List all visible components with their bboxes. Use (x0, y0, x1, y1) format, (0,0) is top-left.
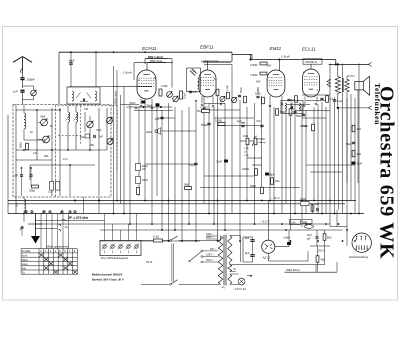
output transformer secondary (345, 76, 355, 183)
label MW 1.9mA (145, 55, 168, 59)
bus avc (100, 229, 343, 231)
node dial junction (250, 59, 337, 65)
trimmer C1 (38, 119, 48, 126)
svg-text:Kurz: Kurz (22, 255, 28, 258)
resistor 27k (300, 198, 309, 206)
svg-text:Meßinstrument 500Ω/V: Meßinstrument 500Ω/V (92, 273, 123, 277)
svg-text:1kΩ: 1kΩ (80, 135, 85, 139)
wire zf line (36, 219, 105, 221)
svg-text:40V ≈: 40V ≈ (210, 248, 217, 251)
oscillator coils (66, 106, 79, 122)
label MW 3mA (148, 59, 166, 63)
label 4V a (233, 268, 236, 271)
resistor right low (352, 150, 361, 157)
resistor 39k ohm (29, 185, 39, 192)
svg-text:1,5A: 1,5A (244, 154, 249, 157)
IF transformer 3 (281, 101, 303, 114)
svg-text:20kΩ: 20kΩ (146, 131, 152, 134)
wire screen bus (145, 59, 172, 88)
loudspeaker (355, 76, 370, 183)
tube ECL11 (303, 64, 320, 104)
capacitor 5nF EM (287, 98, 295, 102)
svg-text:220V ≈: 220V ≈ (206, 236, 215, 239)
svg-text:40pF: 40pF (69, 59, 75, 63)
svg-text:ECH11: ECH11 (142, 46, 157, 51)
resistor 15 ohm (271, 178, 280, 185)
capacitor tuner 2 (29, 168, 32, 186)
IF transformer 1 (67, 87, 100, 104)
wire 1a stub (36, 228, 58, 230)
capacitor 1nF tuner (14, 168, 24, 196)
svg-text:45 W: 45 W (146, 260, 153, 264)
variable capacitor gang 1 (87, 116, 94, 133)
capacitor 10nF (307, 234, 319, 241)
svg-text:Orchestra 659 WK: Orchestra 659 WK (376, 86, 398, 259)
svg-text:200pF: 200pF (26, 77, 35, 81)
svg-text:1nF: 1nF (13, 90, 18, 94)
svg-text:1kΩ: 1kΩ (303, 221, 308, 224)
svg-text:6μF: 6μF (155, 118, 160, 121)
capacitor 100uF (283, 236, 291, 245)
svg-text:65μF: 65μF (269, 174, 275, 177)
trimmer osc 1 (107, 117, 113, 123)
resistor 0.2M mid (215, 120, 225, 126)
label 45W (146, 260, 153, 264)
svg-text:+50μF: +50μF (283, 236, 291, 240)
svg-text:500: 500 (15, 202, 19, 207)
brand Telefunken (373, 83, 382, 125)
svg-text:2kΩ: 2kΩ (357, 128, 362, 131)
label 1M EM (255, 91, 261, 95)
UKW connector (100, 241, 141, 261)
resistor 2M ohm (19, 142, 29, 150)
capacitor 1nF input (13, 90, 25, 104)
label 8M 1.5M (300, 124, 314, 131)
pot 0.5M (254, 138, 266, 145)
power transformer secondary HT (228, 236, 232, 265)
svg-text:25kΩ 60mA: 25kΩ 60mA (286, 268, 300, 272)
capacitor 2nF osc (94, 135, 104, 139)
label 202V (317, 249, 325, 253)
svg-text:Zum UKW Einbaugerät: Zum UKW Einbaugerät (100, 256, 128, 260)
trimmer antenna (23, 86, 37, 100)
wire avc drop (95, 52, 97, 87)
svg-text:13,4: 13,4 (63, 158, 68, 161)
wire heater ECH (126, 106, 172, 107)
svg-text:EM11: EM11 (270, 46, 282, 51)
svg-text:Sockelschaltung: Sockelschaltung (349, 255, 368, 259)
tube label ECL11 (302, 47, 316, 52)
wire ECH plate link (134, 63, 173, 80)
svg-text:20V: 20V (267, 63, 272, 67)
resistor below 18k (137, 188, 140, 195)
resistor 1.5M ohm (250, 72, 267, 77)
power transformer primary (218, 236, 223, 284)
svg-text:15Ω: 15Ω (275, 180, 280, 183)
bus heater (8, 213, 364, 215)
label measurement (92, 273, 125, 282)
svg-text:1.9mA: 1.9mA (123, 71, 132, 75)
svg-text:1.3mA: 1.3mA (281, 54, 290, 58)
primary taps (201, 236, 218, 263)
capacitor 50nF ECH (130, 101, 146, 105)
border frame (3, 27, 398, 301)
svg-text:– 11 V: – 11 V (271, 196, 279, 200)
svg-text:24V/36mA: 24V/36mA (305, 60, 317, 64)
resistor zig right (327, 79, 331, 87)
label 50nF right (296, 114, 305, 118)
capacitor 50uF right (346, 142, 355, 146)
svg-text:2,5A: 2,5A (244, 147, 249, 150)
resistor 1k ohm osc (80, 134, 90, 139)
capacitor 0.1 right (333, 100, 343, 103)
capacitor 40pF antenna (69, 52, 75, 87)
resistor 18k (136, 177, 148, 184)
svg-text:0,1μF: 0,1μF (337, 100, 344, 103)
svg-text:50Ω: 50Ω (327, 237, 332, 240)
rectifier AZ11 (262, 201, 275, 260)
horizontal wires midfield (114, 65, 356, 188)
resistor EM grid (295, 96, 298, 103)
IF transformer 2 (186, 68, 200, 92)
wire EBF11 label box (232, 54, 252, 59)
svg-text:39kΩ: 39kΩ (29, 189, 35, 193)
tuner section dashed box (13, 105, 111, 198)
resistor 1M pot (243, 135, 257, 146)
svg-text:ECL11: ECL11 (302, 47, 316, 52)
pilot lamp (235, 278, 247, 291)
svg-text:1W: 1W (142, 168, 146, 171)
switch position table (21, 244, 77, 274)
svg-text:125V ≈: 125V ≈ (206, 254, 215, 257)
capacitor 50pF ECH (147, 103, 160, 107)
capacitor 5nF mid (257, 120, 264, 127)
capacitor 65uF (265, 173, 275, 177)
svg-text:1a: 1a (65, 225, 69, 229)
svg-text:1,5MΩ: 1,5MΩ (250, 74, 258, 77)
svg-text:550pF: 550pF (201, 124, 208, 127)
label 250k (285, 262, 338, 272)
label 110V (206, 259, 214, 262)
svg-text:8μF: 8μF (245, 252, 250, 255)
svg-text:0,3A: 0,3A (291, 222, 296, 225)
svg-text:1MΩ: 1MΩ (255, 91, 261, 95)
svg-text:60kΩ: 60kΩ (250, 185, 256, 188)
tube label EM11 (270, 46, 282, 51)
tube label EBF11 (200, 45, 214, 50)
capacitor 50nF low (217, 160, 228, 164)
fuse box (290, 220, 301, 225)
labels cluster EBF (227, 84, 260, 94)
oval elko (305, 225, 314, 229)
bus -5.2V (36, 220, 331, 225)
trimmer C2 (38, 136, 50, 143)
capacitor 2nF mid (189, 90, 197, 94)
label 24V 36mA (303, 59, 322, 64)
resistor 0.1uF a (180, 91, 187, 99)
power transformer heater winding (228, 265, 236, 272)
tube ECH11 (137, 70, 156, 106)
svg-text:Ta.: Ta. (22, 272, 26, 275)
tube socket bottom view (349, 233, 371, 259)
power transformer core (224, 235, 226, 286)
svg-text:70pF: 70pF (96, 129, 102, 132)
capacitor antenna 200pF (20, 73, 35, 88)
label 20V (267, 63, 272, 67)
trimmer osc 2 (107, 138, 113, 144)
tube label ECH11 (142, 46, 157, 51)
svg-text:0,3MΩ: 0,3MΩ (250, 64, 258, 67)
svg-text:Kontakt: Kontakt (22, 250, 31, 253)
svg-text:50nF: 50nF (130, 101, 136, 105)
speaker return corner (330, 210, 347, 227)
svg-text:0,2MΩ: 0,2MΩ (215, 120, 222, 123)
model Orchestra 659 WK (376, 86, 398, 259)
svg-text:2kΩ: 2kΩ (357, 153, 362, 156)
bus bottom (100, 240, 200, 242)
svg-text:Mittel gezeichnet: Mittel gezeichnet (46, 244, 69, 248)
rect wires right (268, 230, 308, 261)
capacitor 8uF a (245, 237, 255, 248)
svg-text:5nF: 5nF (257, 120, 262, 123)
svg-text:1nF: 1nF (33, 152, 38, 155)
coil L3 ground (15, 197, 26, 223)
svg-text:70pF: 70pF (40, 116, 46, 119)
svg-text:27kΩ: 27kΩ (300, 198, 306, 201)
label 01M vertical (291, 101, 294, 109)
svg-text:1nF: 1nF (14, 174, 19, 178)
wire HT bus top (59, 52, 232, 61)
label 240V (206, 233, 215, 236)
svg-text:3MΩ: 3MΩ (184, 184, 189, 187)
svg-text:1MΩ: 1MΩ (243, 135, 248, 138)
svg-text:200: 200 (90, 144, 95, 147)
capacitor 8uF b (245, 248, 255, 262)
resistor 0.3M right (201, 107, 210, 113)
label 650/6.3mA vertical (114, 91, 118, 105)
svg-text:ZF = 473 kHz: ZF = 473 kHz (67, 216, 88, 220)
label 125V (206, 254, 215, 257)
svg-text:30kΩ: 30kΩ (241, 87, 243, 93)
label 1.3mA (281, 54, 290, 58)
trimmer pad ECH a (167, 92, 173, 98)
svg-text:8μF: 8μF (245, 237, 250, 240)
pin numbers EBF11 (200, 77, 217, 81)
svg-text:50pF: 50pF (147, 103, 153, 107)
svg-text:18kΩ: 18kΩ (142, 179, 148, 182)
resistor 3M small (184, 184, 192, 190)
svg-text:5nF: 5nF (315, 203, 320, 206)
tube pin contacts (135, 100, 317, 109)
power transformer lamp winding (228, 274, 239, 284)
svg-text:346: 346 (84, 108, 89, 111)
rect input wires (243, 237, 259, 262)
trimmer pad ECH b (173, 96, 179, 102)
resistor 50 ohm (323, 234, 332, 241)
svg-text:1,5MΩ: 1,5MΩ (301, 126, 308, 128)
svg-text:6,3V 0,3A: 6,3V 0,3A (235, 287, 247, 291)
label 40V (210, 248, 217, 251)
svg-text:4V: 4V (233, 268, 236, 271)
svg-text:0,5MΩ: 0,5MΩ (258, 138, 265, 141)
capacitor 50nF grid (197, 108, 206, 113)
label 46V (256, 80, 261, 84)
resistor right b (311, 203, 320, 211)
label ZF 473kHz (61, 216, 89, 221)
svg-text:0,1Ω: 0,1Ω (154, 235, 160, 239)
coupling hooks 1a (59, 224, 69, 231)
switch contact low (20, 226, 24, 236)
svg-text:0,1μF: 0,1μF (189, 164, 196, 167)
resistor 300 ohm (276, 109, 286, 116)
resistor 2k right (352, 125, 361, 132)
bus -11V (8, 196, 356, 201)
svg-text:m.Ausgl.: m.Ausgl. (258, 141, 267, 144)
svg-text:20: 20 (30, 131, 33, 134)
wire dial lamp feed (329, 62, 372, 66)
svg-text:20: 20 (244, 152, 247, 154)
antenna (13, 57, 32, 74)
svg-text:MW 0,5mA: MW 0,5mA (204, 59, 219, 63)
coil L1 antenna (24, 105, 26, 141)
resistor cluster EBF (216, 89, 264, 104)
resistor 38k 1W (136, 164, 148, 172)
svg-text:46V: 46V (256, 80, 261, 84)
bus second (8, 203, 345, 205)
svg-text:1μF: 1μF (307, 238, 312, 241)
svg-text:Bereich 300 V bzw. 30 V: Bereich 300 V bzw. 30 V (92, 278, 125, 282)
svg-text:50μF: 50μF (357, 163, 363, 166)
wires tuner internal (16, 105, 107, 197)
right cluster wires (310, 204, 330, 272)
resistor block 0.1uF (48, 182, 59, 195)
mains switch pole 2 (141, 280, 221, 285)
svg-text:KW: KW (22, 267, 27, 270)
label 4V b (222, 287, 225, 290)
left bus verticals (8, 115, 100, 214)
label 60kOhm (250, 185, 263, 194)
vertical wires trunk (114, 63, 360, 246)
svg-text:170Ω: 170Ω (161, 84, 168, 88)
label MW 0.5mA (203, 59, 231, 63)
heater arrow (247, 275, 253, 277)
resistor 0.1 ohm mains (141, 235, 170, 243)
speaker sym 20k (146, 128, 161, 135)
resistor 100k (242, 168, 257, 175)
box 1k (302, 220, 312, 224)
tube EM11 (267, 60, 285, 104)
svg-text:202 V: 202 V (317, 249, 325, 253)
resistor det (289, 109, 297, 116)
transformer top leads (230, 236, 243, 263)
capacitor 2uF (237, 120, 245, 127)
wire grid link ECH (69, 86, 114, 88)
tuner small labels (30, 108, 102, 161)
tuner dots (21, 109, 91, 168)
label 1.9mA (123, 71, 132, 75)
svg-text:2nF: 2nF (193, 90, 198, 94)
resistor 170 ohm (159, 84, 168, 96)
tuner partition dashed (55, 105, 57, 198)
svg-text:Mittel: Mittel (22, 259, 28, 262)
svg-text:4V: 4V (222, 287, 225, 290)
tube EBF11 (199, 70, 216, 104)
primary selector (189, 252, 201, 262)
capacitor 550pF (201, 123, 211, 127)
oscillator dashed box (58, 106, 117, 170)
output transformer primary (335, 64, 340, 108)
wire EM11 plate bus (251, 55, 336, 64)
mains switch pole 1 (170, 236, 221, 241)
pin numbers ECH11 (138, 76, 156, 104)
svg-text:3: 3 (317, 88, 319, 92)
capacitor 0.1uF low mid (189, 163, 198, 167)
svg-text:Lang: Lang (22, 263, 28, 266)
pin numbers ECL11 (303, 71, 319, 92)
svg-text:2: 2 (138, 78, 140, 82)
switch contacts row (23, 210, 76, 249)
svg-text:AZ 11: AZ 11 (262, 255, 271, 259)
output transformer core (342, 78, 343, 92)
switch link (172, 244, 174, 282)
heater bus line (230, 246, 325, 265)
wire EBF plate link (201, 62, 232, 71)
svg-text:0,1μF: 0,1μF (227, 84, 229, 91)
svg-text:2MΩ: 2MΩ (19, 142, 23, 148)
capacitor ECL cath (320, 96, 334, 103)
resistor 4k (316, 256, 325, 263)
label 2.54 20 (244, 147, 249, 157)
svg-text:0,3MΩ: 0,3MΩ (201, 107, 208, 110)
speaker feed arrows (337, 64, 372, 110)
svg-text:58: 58 (50, 125, 53, 128)
svg-text:0,1μF: 0,1μF (184, 92, 187, 99)
svg-text:EBF11: EBF11 (200, 45, 214, 50)
capacitor 50uF b (352, 162, 363, 166)
label 220V (206, 236, 215, 239)
svg-text:4kΩ: 4kΩ (321, 259, 326, 262)
svg-text:50nF: 50nF (296, 115, 302, 118)
svg-text:50nF: 50nF (217, 161, 223, 164)
ground (28, 214, 43, 244)
svg-text:5kΩ: 5kΩ (44, 155, 49, 158)
UKW pin drops (105, 214, 137, 241)
wire left HT drop (58, 52, 60, 104)
capacitor 6uF mid (155, 117, 164, 121)
svg-text:100kΩ: 100kΩ (242, 168, 249, 171)
svg-text:110V ≈: 110V ≈ (206, 259, 214, 262)
resistor 0.3M ohm (250, 62, 267, 67)
